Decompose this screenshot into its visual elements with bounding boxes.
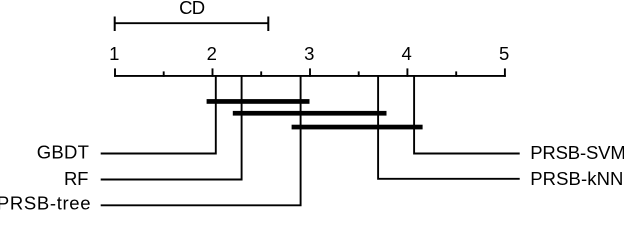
svg-text:RF: RF xyxy=(64,168,88,189)
svg-text:PRSB-tree: PRSB-tree xyxy=(0,193,91,212)
svg-text:GBDT: GBDT xyxy=(37,142,89,163)
svg-text:2: 2 xyxy=(207,43,217,64)
svg-text:1: 1 xyxy=(109,43,119,64)
svg-text:CD: CD xyxy=(179,0,205,18)
svg-text:PRSB-SVM: PRSB-SVM xyxy=(530,142,624,163)
svg-text:4: 4 xyxy=(402,43,412,64)
svg-text:5: 5 xyxy=(499,43,509,64)
svg-text:3: 3 xyxy=(304,43,314,64)
svg-text:PRSB-kNN: PRSB-kNN xyxy=(530,168,623,189)
